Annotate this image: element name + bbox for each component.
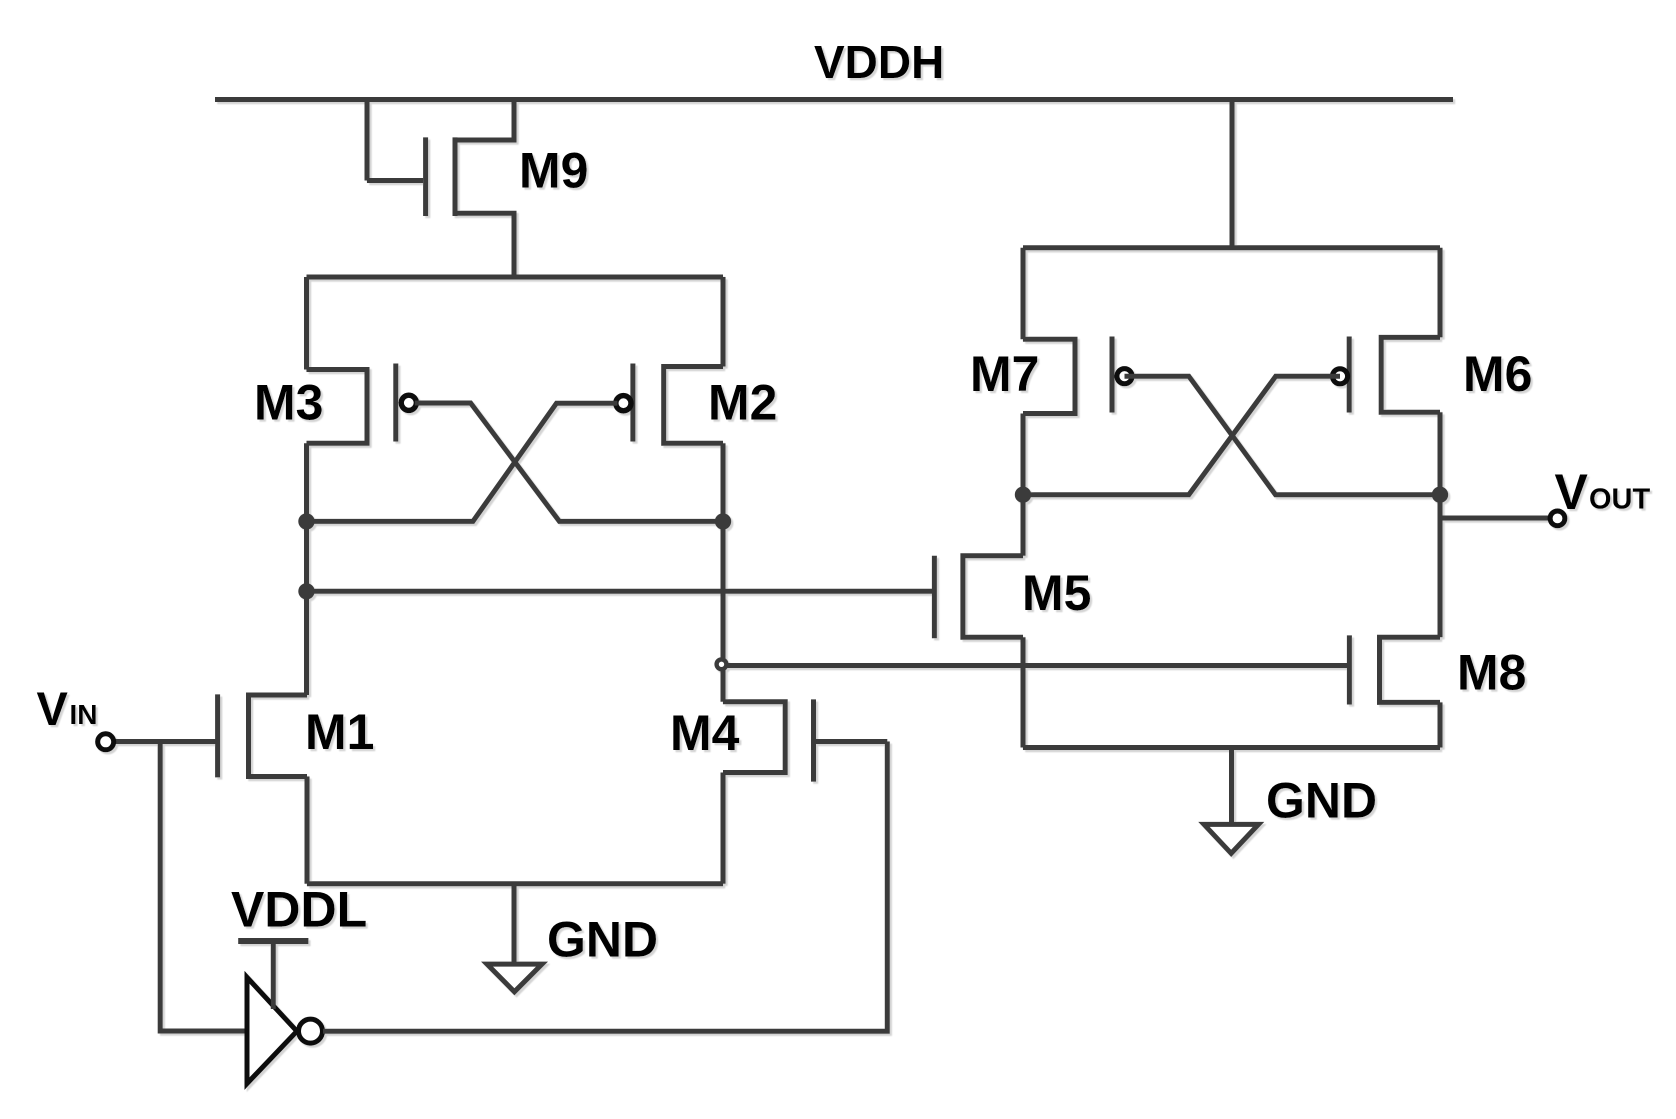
- node B tap open circle: [717, 659, 727, 669]
- svg-text:M1: M1: [305, 704, 374, 760]
- svg-text:M9: M9: [519, 142, 588, 198]
- supply symbol VDDL: [231, 882, 367, 942]
- svg-text:V: V: [37, 682, 69, 735]
- transistor M6: [1332, 248, 1532, 518]
- transistor M5: [934, 495, 1091, 748]
- transistor M3: [254, 277, 416, 443]
- node D junction: [1432, 487, 1448, 503]
- port VOUT wire: [1440, 516, 1550, 521]
- wire M7 gate cross-coupling to node D: [1125, 376, 1441, 495]
- node B junction: [715, 513, 731, 529]
- svg-text:M5: M5: [1022, 565, 1091, 621]
- wire VIN branch to inverter input: [160, 742, 247, 1032]
- ground symbol right: [1204, 748, 1377, 854]
- svg-text:IN: IN: [70, 699, 98, 730]
- wire left latch top: [307, 275, 724, 280]
- transistor M2: [616, 277, 778, 443]
- inverter U1: [247, 977, 323, 1083]
- transistor M9: [367, 100, 588, 278]
- wire VDDH feed right latch: [1230, 100, 1235, 248]
- port VIN circle: [98, 734, 114, 750]
- svg-text:M8: M8: [1457, 644, 1526, 700]
- svg-text:M6: M6: [1463, 346, 1532, 402]
- svg-text:VDDH: VDDH: [814, 36, 944, 88]
- port VOUT circle: [1550, 511, 1565, 526]
- transistor M4: [670, 699, 887, 883]
- wire node B to M8 gate: [724, 663, 1350, 668]
- node A junction: [298, 513, 314, 529]
- ground symbol left: [487, 884, 658, 992]
- svg-text:M3: M3: [254, 374, 323, 430]
- wire M2 gate cross-coupling to node A: [307, 403, 618, 521]
- svg-text:GND: GND: [1266, 773, 1377, 829]
- transistor M7: [970, 248, 1132, 495]
- svg-text:GND: GND: [547, 911, 658, 967]
- wire VDDH rail: [215, 97, 1453, 102]
- wire right latch top: [1023, 245, 1440, 250]
- svg-text:OUT: OUT: [1589, 484, 1651, 516]
- node A tap junction to M5 gate: [298, 583, 314, 599]
- transistor M8: [1349, 518, 1526, 748]
- svg-text:V: V: [1555, 464, 1589, 520]
- wire VDDL supply feed to inverter: [271, 941, 276, 1009]
- wire M6 gate cross-coupling to node C: [1023, 376, 1340, 494]
- svg-text:VDDL: VDDL: [231, 882, 367, 938]
- wire node A down left column: [304, 443, 309, 695]
- port VIN wire: [106, 739, 218, 744]
- wire inverter output to M4 gate: [323, 742, 887, 1032]
- wire node A to M5 gate: [307, 589, 935, 594]
- node C junction: [1015, 487, 1031, 503]
- svg-text:M2: M2: [708, 374, 777, 430]
- wire M3 gate cross-coupling to node B: [415, 403, 723, 521]
- wire node B down right column: [721, 443, 726, 701]
- svg-text:M7: M7: [970, 346, 1039, 402]
- wire bottom rail M1-M4 sources: [307, 881, 723, 886]
- svg-text:M4: M4: [670, 705, 740, 761]
- wire right GND rail: [1023, 745, 1440, 750]
- transistor M1: [218, 694, 375, 883]
